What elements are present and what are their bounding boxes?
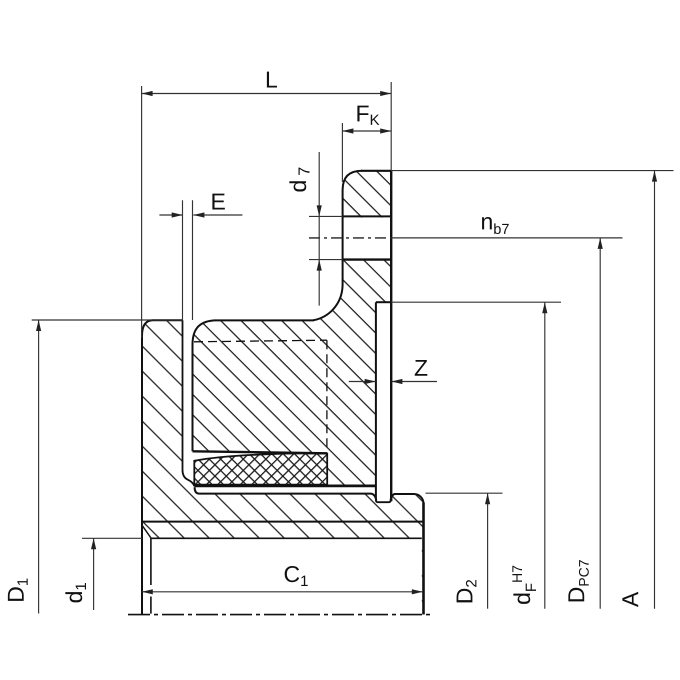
drum top edge line: [195, 487, 377, 500]
hub left face and outer diameter edge: [142, 320, 183, 614]
dimension DPC7 (bolt circle): [599, 238, 601, 609]
bolt circle extension line nb7: [391, 237, 622, 239]
arrows d7: [317, 205, 322, 270]
label dF H7: [512, 566, 536, 604]
label nb7: [482, 217, 509, 234]
hidden jaw pocket edges (dashed): [194, 340, 327, 448]
label d7: [289, 168, 309, 192]
hub bore line d1: [151, 537, 422, 539]
arrows FK: [342, 128, 391, 133]
dimension E: [159, 200, 242, 320]
label d1: [65, 583, 86, 602]
sleeve left face: [193, 320, 215, 451]
dimension d7: [309, 152, 343, 306]
flange recess line dF: [376, 301, 391, 303]
bore entry chamfer: [142, 525, 151, 538]
drum inner diameter line: [142, 521, 424, 523]
label D1: [8, 579, 28, 601]
dimension A: [391, 171, 673, 609]
flange right face: [390, 171, 392, 501]
dimension L: [142, 82, 392, 338]
arrow dF: [542, 302, 547, 313]
bolt hole bore (white band through flange): [342, 218, 393, 259]
dimension D2: [426, 493, 503, 609]
flange top edge: [361, 170, 391, 172]
label E: [212, 194, 224, 210]
hub clamping slot wall and channel bottom: [183, 320, 195, 486]
flange fillet and left face: [313, 171, 362, 320]
arrows L: [142, 91, 392, 96]
arrows C1: [142, 589, 423, 594]
arrow D1: [36, 320, 41, 331]
dimension Z: [349, 381, 437, 383]
label A: [622, 592, 638, 607]
flange sleeve section hatching (right component): [193, 171, 392, 486]
dimension dF H7: [391, 302, 561, 609]
label Z: [415, 360, 428, 376]
jaw bottom line: [193, 451, 328, 453]
elastomer ring outline: [194, 453, 327, 484]
drum hump edge: [391, 494, 424, 504]
arrows Z: [365, 379, 403, 384]
elastomer ring crosshatch fill: [194, 453, 327, 484]
label FK: [357, 106, 379, 125]
recess wall: [375, 302, 377, 499]
flange foot bottom cap: [376, 499, 391, 503]
axis centerline: [128, 614, 431, 616]
arrow D2: [485, 493, 490, 504]
sleeve top edge: [214, 319, 314, 321]
dimension C1: [142, 591, 423, 593]
label C1: [285, 566, 308, 586]
label L: [267, 72, 277, 88]
label DPC7: [568, 560, 588, 601]
dimension d1: [82, 538, 142, 610]
bolt hole centerline: [309, 237, 391, 239]
bolt bore top line: [343, 215, 392, 217]
arrow d1: [91, 538, 96, 549]
hub and brake drum section hatching (left component): [142, 320, 424, 614]
arrow DPC7: [598, 238, 603, 249]
drum right face: [422, 503, 425, 615]
dimension FK: [342, 123, 391, 182]
dimension D1: [32, 320, 182, 614]
bore step verticals: [150, 538, 152, 613]
sleeve bottom thick line: [194, 484, 376, 487]
bolt bore bottom line: [343, 258, 392, 260]
arrows E: [172, 212, 205, 217]
label D2: [457, 580, 477, 602]
arrow A: [652, 171, 657, 182]
